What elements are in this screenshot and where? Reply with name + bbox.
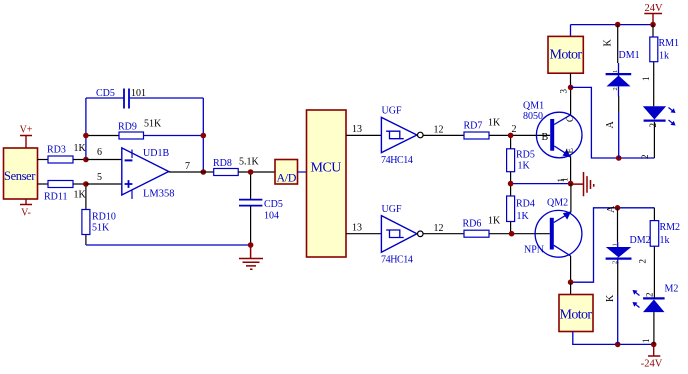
power -24V — [641, 344, 663, 369]
svg-text:UGF: UGF — [382, 204, 402, 215]
svg-text:3: 3 — [559, 89, 569, 94]
svg-text:13: 13 — [352, 223, 362, 234]
wire RD11 to node5 — [73, 183, 86, 185]
svg-text:RD11: RD11 — [44, 192, 68, 203]
svg-text:6: 6 — [97, 147, 102, 158]
svg-text:V-: V- — [21, 208, 31, 219]
inverter U2 UGF 74HC14 bottom — [381, 204, 423, 266]
svg-text:5: 5 — [97, 172, 102, 183]
svg-text:DM2: DM2 — [630, 235, 651, 246]
wire op-amp pin 6 — [86, 159, 122, 161]
svg-text:51K: 51K — [144, 119, 162, 130]
svg-text:UGF: UGF — [382, 106, 402, 117]
svg-text:13: 13 — [352, 124, 362, 135]
wire motor2 top loop — [571, 208, 655, 282]
wire QM1 emitter down — [570, 156, 572, 183]
wire RD8 to A/D node — [238, 171, 275, 173]
svg-text:RM2: RM2 — [660, 222, 681, 233]
wire inverter2 out to RD6 — [423, 233, 464, 235]
svg-text:24V: 24V — [644, 3, 663, 14]
wire QM1 collector up — [570, 87, 572, 114]
op-amp UD1B LM358 — [122, 148, 175, 200]
svg-text:1k: 1k — [660, 235, 670, 246]
wire motor1 bottom to node 3 — [570, 73, 572, 87]
svg-text:DM1: DM1 — [619, 50, 640, 61]
ground analog — [239, 245, 263, 269]
svg-text:1k: 1k — [659, 51, 669, 62]
wire MCU pin 13 bottom — [346, 233, 381, 235]
power V+ — [20, 125, 33, 149]
inverter U1 UGF 74HC14 top — [381, 106, 423, 167]
svg-text:CD5: CD5 — [264, 199, 283, 210]
wire node7 to RD8 — [203, 171, 213, 173]
ground QM1 emitter — [571, 172, 594, 196]
svg-text:Motor: Motor — [549, 47, 582, 62]
node junction dots left section — [83, 133, 89, 139]
wire QM2 collector down — [570, 256, 572, 282]
resistor RD4 — [507, 184, 535, 234]
svg-text:A: A — [605, 121, 616, 129]
svg-text:NPN: NPN — [524, 245, 544, 256]
svg-text:2: 2 — [612, 87, 619, 90]
svg-text:RD10: RD10 — [92, 212, 116, 223]
motor M1 box — [548, 25, 583, 74]
motor M2 box — [559, 282, 593, 331]
svg-text:RD6: RD6 — [463, 219, 482, 230]
svg-text:Motor: Motor — [559, 307, 592, 322]
power V- — [20, 199, 32, 219]
wire bottom analog rail — [86, 244, 251, 246]
svg-text:2: 2 — [638, 259, 648, 264]
svg-text:A/D: A/D — [277, 171, 297, 185]
svg-text:1K: 1K — [517, 211, 530, 222]
svg-text:7: 7 — [185, 161, 190, 172]
svg-text:B: B — [542, 132, 549, 143]
svg-text:2: 2 — [648, 123, 658, 128]
svg-text:M2: M2 — [665, 284, 679, 295]
wire op-amp pin 7 output — [169, 171, 204, 173]
svg-text:104: 104 — [264, 211, 279, 222]
wire senser pin to RD3 — [38, 159, 49, 161]
resistor RD11 — [44, 181, 87, 203]
diode DM2 — [605, 205, 651, 344]
svg-text:C: C — [565, 116, 575, 122]
resistor RM1 — [641, 25, 679, 107]
wire MCU pin 13 top — [346, 134, 381, 136]
svg-text:MCU: MCU — [311, 160, 342, 175]
wire motor2 bottom to -24V rail — [573, 332, 654, 345]
svg-text:1K: 1K — [488, 118, 501, 129]
wire RD9 row left — [86, 135, 119, 137]
svg-text:RM1: RM1 — [659, 38, 680, 49]
svg-text:RD4: RD4 — [516, 199, 535, 210]
wire feedback right vertical — [202, 136, 204, 173]
wire RD6 to QM2 base node — [489, 233, 550, 235]
capacitor CD5 101 — [96, 88, 146, 109]
resistor RD6 — [463, 216, 502, 238]
svg-text:5.1K: 5.1K — [239, 157, 260, 168]
svg-text:74HC14: 74HC14 — [381, 255, 413, 266]
svg-text:101: 101 — [131, 88, 146, 99]
svg-text:1: 1 — [641, 339, 651, 344]
node dots driver section — [508, 133, 514, 139]
svg-text:LM358: LM358 — [143, 189, 175, 200]
wire inverter1 out to RD7 — [423, 134, 464, 136]
wire QM2 emitter up — [570, 184, 572, 213]
svg-text:A: A — [606, 205, 617, 213]
svg-text:V+: V+ — [20, 125, 33, 136]
svg-text:RD3: RD3 — [47, 145, 66, 156]
wire RD7 to QM1 base node — [489, 134, 511, 136]
A/D converter box — [275, 160, 298, 185]
MCU box — [307, 110, 347, 257]
resistor RD5 — [507, 135, 535, 183]
svg-text:1K: 1K — [74, 143, 87, 154]
svg-text:1: 1 — [556, 178, 566, 183]
svg-text:QM2: QM2 — [547, 198, 568, 209]
sensor U? Senser box — [4, 148, 38, 199]
svg-text:Senser: Senser — [4, 169, 36, 183]
capacitor CD5 104 — [239, 172, 283, 245]
svg-text:K: K — [603, 39, 614, 47]
svg-text:2: 2 — [612, 261, 619, 264]
svg-text:QM1: QM1 — [523, 101, 544, 112]
svg-text:1: 1 — [612, 70, 619, 73]
svg-text:-24V: -24V — [641, 359, 663, 370]
svg-text:1: 1 — [612, 243, 619, 246]
wire top rail 24V — [571, 24, 654, 26]
svg-text:1K: 1K — [518, 161, 531, 172]
diode DM1 — [603, 25, 640, 158]
resistor RD3 — [47, 143, 87, 163]
svg-text:2: 2 — [640, 155, 650, 160]
LED M2 — [633, 284, 679, 345]
wire node3 to right loop — [571, 87, 655, 158]
svg-text:RD8: RD8 — [213, 158, 232, 169]
wire feedback left vertical — [85, 98, 87, 160]
svg-text:CD5: CD5 — [96, 88, 115, 99]
resistor RM2 — [638, 208, 681, 298]
power 24V — [644, 3, 663, 25]
svg-text:12: 12 — [434, 223, 444, 234]
wire op-amp pin 5 — [86, 183, 122, 185]
LED M1 — [643, 106, 676, 158]
wire RD9 row right — [144, 135, 204, 137]
svg-text:E: E — [565, 148, 575, 154]
svg-text:RD9: RD9 — [118, 122, 137, 133]
wire base node to QM1 base — [511, 134, 550, 136]
svg-text:2: 2 — [645, 293, 655, 298]
svg-text:12: 12 — [434, 125, 444, 136]
svg-text:UD1B: UD1B — [143, 148, 169, 159]
wire capacitor top rail — [86, 98, 203, 136]
svg-text:51K: 51K — [92, 223, 110, 234]
transistor QM2 NPN — [524, 198, 582, 258]
resistor RD7 — [464, 118, 502, 140]
wire A/D to MCU — [298, 171, 307, 173]
resistor RD8 — [213, 157, 260, 176]
node dots analog mid — [248, 169, 254, 175]
svg-text:74HC14: 74HC14 — [381, 155, 413, 166]
wire senser pin to RD11 — [38, 183, 49, 185]
svg-text:K: K — [605, 294, 616, 302]
wire RD3 to node6 — [73, 159, 86, 161]
svg-text:RD5: RD5 — [516, 150, 535, 161]
svg-text:1K: 1K — [74, 190, 87, 201]
svg-text:8050: 8050 — [523, 111, 543, 122]
resistor RD9 — [118, 119, 162, 140]
svg-text:RD7: RD7 — [464, 121, 483, 132]
wire RD5 bottom to ground node — [511, 183, 571, 185]
transistor QM1 8050 — [523, 101, 582, 158]
svg-text:1: 1 — [641, 77, 651, 82]
svg-text:1K: 1K — [488, 216, 501, 227]
resistor RD10 — [82, 184, 116, 245]
